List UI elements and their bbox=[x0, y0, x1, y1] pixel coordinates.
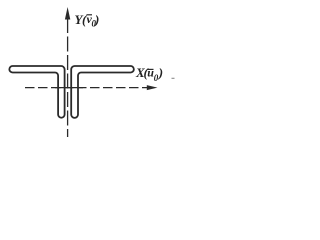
svg-text:): ) bbox=[158, 65, 163, 80]
label Y(v0) on Y axis bbox=[75, 12, 100, 29]
svg-text:): ) bbox=[94, 12, 99, 27]
stray scan mark at right margin bbox=[172, 77, 175, 79]
left angle profile (flange + web, thin-walled) bbox=[9, 66, 64, 118]
Y axis (dash-dot centerline) bbox=[65, 7, 70, 137]
right angle profile (flange + web, thin-walled) bbox=[71, 66, 134, 118]
X axis (dashed line with arrow) bbox=[25, 85, 158, 90]
label X(u0) on X axis bbox=[135, 65, 163, 83]
